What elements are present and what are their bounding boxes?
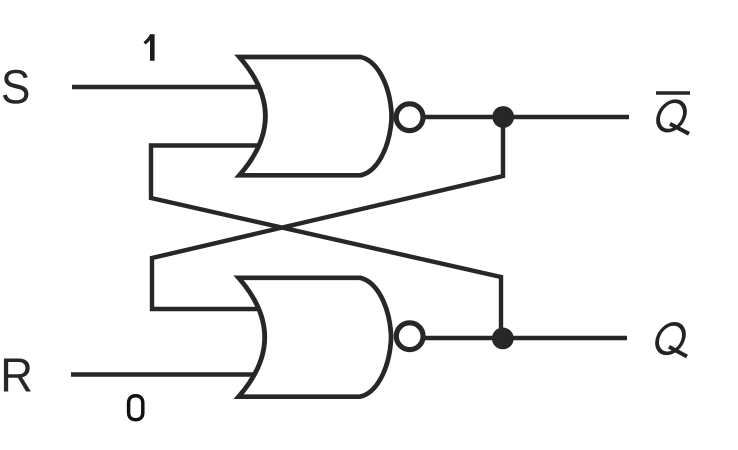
- node Q junction: [492, 328, 514, 350]
- label Qbar overline: [656, 91, 690, 94]
- label S: [3, 70, 28, 104]
- wire U2 output to junction: [424, 336, 503, 340]
- NOR gate U2 (bottom): [239, 278, 391, 397]
- wire Qbar output: [503, 115, 629, 119]
- NOR gate U1 (top): [239, 57, 391, 175]
- label Q: [654, 324, 687, 357]
- wire U1 output to junction: [424, 115, 503, 119]
- label Qbar Q: [655, 101, 689, 134]
- bubble U2 output: [396, 323, 423, 350]
- wire Q output: [502, 336, 627, 340]
- label R: [4, 358, 31, 391]
- wire R input: [71, 372, 254, 376]
- wire S input: [72, 85, 260, 89]
- wire net Qbar feedback (top gate output down to bottom gate input A): [152, 117, 503, 309]
- label 1 (S input value): [144, 34, 152, 61]
- wire net Q feedback (bottom gate output up to top gate input B): [151, 146, 501, 339]
- label 0 (R input value): [129, 396, 143, 420]
- node Qbar junction: [492, 106, 514, 128]
- bubble U1 output: [396, 104, 423, 131]
